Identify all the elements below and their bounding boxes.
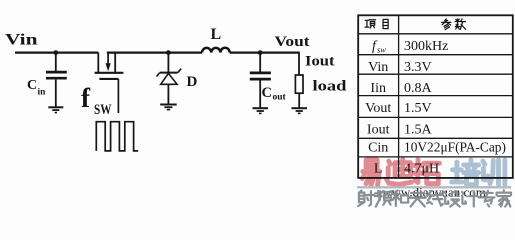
watermark char yi (pink) <box>362 160 379 185</box>
table row fsw label <box>372 39 386 55</box>
table row Iout value 1.5A <box>404 123 433 138</box>
wire main rail right segment <box>230 51 299 53</box>
table header canshu (参数) <box>442 19 466 30</box>
svg-text:4.7μH: 4.7μH <box>404 161 439 176</box>
svg-text:Iout: Iout <box>305 53 335 69</box>
node junction diode tap <box>166 50 171 55</box>
label fsw <box>81 83 112 118</box>
capacitor Cin <box>46 53 67 107</box>
label Vout <box>275 34 310 50</box>
resistor load <box>295 75 303 107</box>
label Vin <box>5 32 38 49</box>
wire main rail left segment <box>15 51 98 53</box>
svg-text:f: f <box>81 83 91 113</box>
table header xiangmu (项目) <box>365 19 388 28</box>
svg-text:D: D <box>187 74 198 90</box>
svg-text:in: in <box>38 88 47 98</box>
svg-text:Vin: Vin <box>368 60 388 75</box>
table row Vout label <box>365 101 391 116</box>
transistor Q1 PMOS switch <box>95 52 124 113</box>
svg-text:SW: SW <box>94 102 112 118</box>
svg-text:300kHz: 300kHz <box>404 39 448 54</box>
label D <box>187 74 198 90</box>
svg-text:sw: sw <box>377 45 386 55</box>
table row Iin value 0.8A <box>404 81 433 96</box>
table column divider <box>398 15 400 178</box>
label Cout <box>262 85 287 103</box>
table row Iout label <box>367 123 390 138</box>
watermark char xun (blue) <box>483 160 505 185</box>
table row L label <box>374 161 383 176</box>
svg-text:1.5A: 1.5A <box>404 123 433 138</box>
ground for Cout <box>253 108 269 113</box>
svg-text:load: load <box>313 78 348 94</box>
svg-text:C: C <box>262 85 272 101</box>
watermark char pei (blue) <box>452 160 479 185</box>
node junction Cin tap <box>53 50 58 55</box>
ground for load <box>292 108 308 113</box>
table row fsw value 300kHz <box>404 39 448 54</box>
svg-text:Iin: Iin <box>370 81 386 96</box>
watermark char di (pink) <box>387 159 412 184</box>
svg-text:Vin: Vin <box>5 32 38 49</box>
label load <box>313 78 348 94</box>
table row Vout value 1.5V <box>404 101 432 116</box>
svg-text:3.3V: 3.3V <box>404 60 432 75</box>
svg-text:10V22μF(PA-Cap): 10V22μF(PA-Cap) <box>404 139 506 154</box>
table row Cin label <box>368 140 388 155</box>
node junction Cout tap <box>258 50 263 55</box>
ground for Cin <box>48 107 63 112</box>
svg-text:Vout: Vout <box>275 34 310 50</box>
wire output corner down to load <box>298 52 300 75</box>
watermark subtitle gray characters <box>358 190 511 206</box>
svg-text:Cin: Cin <box>368 140 388 155</box>
label Iout <box>305 53 335 69</box>
label L <box>211 26 222 43</box>
svg-text:C: C <box>27 78 37 93</box>
capacitor Cout <box>250 53 271 108</box>
watermark char tuo (pink) <box>413 160 439 184</box>
svg-text:Vout: Vout <box>365 101 391 116</box>
svg-text:0.8A: 0.8A <box>404 81 433 96</box>
table row Cin value <box>404 139 506 154</box>
table inner horizontal lines <box>358 34 513 157</box>
svg-text:1.5V: 1.5V <box>404 101 432 116</box>
svg-text:out: out <box>273 93 287 103</box>
table outer frame <box>358 15 513 178</box>
diode D (freewheeling schottky) <box>157 53 182 104</box>
table row L value 4.7uH <box>404 161 439 176</box>
watermark url text <box>382 185 486 200</box>
square wave gate drive symbol <box>96 122 138 151</box>
ground for diode <box>160 105 177 110</box>
table row Iin label <box>370 81 386 96</box>
svg-text:L: L <box>374 161 383 176</box>
table row Vin value 3.3V <box>404 60 432 75</box>
label Cin <box>27 78 46 98</box>
table row Vin label <box>368 60 388 75</box>
svg-text:L: L <box>211 26 222 43</box>
svg-text:Iout: Iout <box>367 123 390 138</box>
wire main rail middle segment <box>107 51 202 53</box>
inductor L <box>202 48 230 53</box>
watermark separator line <box>357 186 511 188</box>
